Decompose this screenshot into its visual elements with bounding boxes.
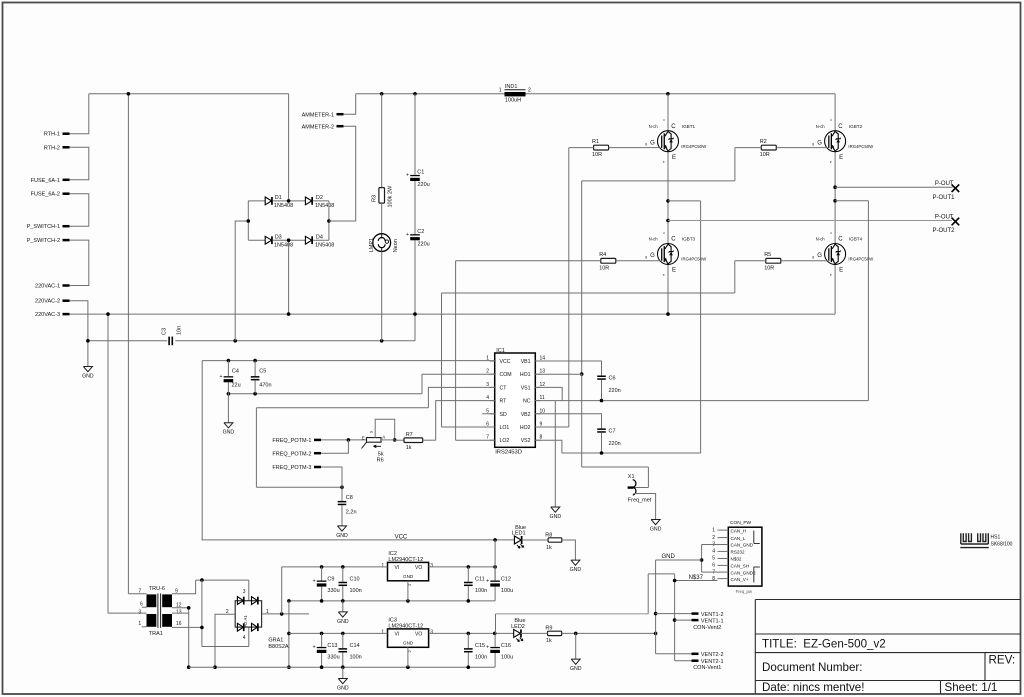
svg-text:CAN_GND2: CAN_GND2 (731, 570, 756, 575)
svg-text:LED2: LED2 (511, 624, 525, 630)
svg-text:P_SWITCH-1: P_SWITCH-1 (27, 224, 60, 230)
svg-text:g: g (645, 142, 647, 146)
svg-text:E: E (672, 155, 676, 161)
svg-text:LM2940CT-12: LM2940CT-12 (388, 624, 423, 630)
svg-text:R5: R5 (764, 252, 771, 258)
svg-text:3: 3 (243, 589, 246, 595)
svg-text:5k: 5k (378, 451, 384, 457)
svg-text:HO2: HO2 (520, 425, 531, 431)
svg-text:10n: 10n (177, 326, 183, 335)
svg-text:RTH-1: RTH-1 (44, 132, 60, 138)
svg-text:GRA1: GRA1 (268, 637, 283, 643)
svg-text:C6: C6 (609, 376, 616, 382)
svg-text:D2: D2 (316, 195, 323, 201)
svg-text:FUSE_6A-1: FUSE_6A-1 (31, 178, 60, 184)
svg-text:RS232: RS232 (731, 550, 745, 555)
svg-text:N-ch: N-ch (816, 237, 826, 242)
svg-text:B80S2A: B80S2A (268, 644, 289, 650)
svg-text:GND: GND (550, 514, 562, 520)
svg-text:LO2: LO2 (500, 438, 510, 444)
svg-text:G: G (650, 140, 655, 146)
svg-text:e: e (663, 273, 665, 277)
svg-text:P-OUT: P-OUT (935, 215, 954, 221)
svg-text:GND: GND (403, 640, 414, 645)
svg-text:CON-Vent1: CON-Vent1 (693, 665, 721, 671)
svg-text:N-ch: N-ch (649, 124, 659, 129)
svg-text:GND: GND (82, 374, 94, 380)
svg-text:100k 2W: 100k 2W (388, 185, 394, 208)
svg-text:VS1: VS1 (521, 385, 531, 391)
svg-text:D4: D4 (316, 234, 323, 240)
svg-text:VENT1-2: VENT1-2 (701, 612, 724, 618)
svg-text:4: 4 (243, 635, 246, 641)
svg-text:AMMETER-2: AMMETER-2 (302, 125, 334, 131)
svg-text:IRG4PC50W: IRG4PC50W (681, 257, 707, 262)
svg-text:R4: R4 (599, 252, 606, 258)
svg-text:C16: C16 (501, 643, 511, 649)
svg-text:IGBT3: IGBT3 (682, 237, 696, 242)
svg-text:RTH-2: RTH-2 (44, 145, 60, 151)
svg-text:N-ch: N-ch (816, 124, 826, 129)
svg-text:10R: 10R (599, 265, 609, 271)
svg-text:100uH: 100uH (505, 98, 521, 104)
svg-text:+: + (406, 173, 409, 179)
svg-text:LM2940CT-12: LM2940CT-12 (388, 557, 423, 563)
svg-text:+: + (486, 578, 489, 584)
svg-text:100n: 100n (350, 588, 362, 594)
svg-text:1: 1 (381, 629, 384, 635)
svg-text:GND: GND (336, 533, 348, 539)
svg-text:1: 1 (499, 88, 502, 94)
svg-text:2: 2 (408, 584, 412, 586)
svg-text:TITLE: EZ-Gen-500_v2: TITLE: EZ-Gen-500_v2 (762, 638, 886, 651)
svg-text:1k: 1k (546, 545, 552, 551)
svg-text:Date: nincs mentve!: Date: nincs mentve! (762, 681, 864, 694)
svg-text:IRS2453D: IRS2453D (495, 450, 522, 456)
svg-text:3: 3 (138, 609, 141, 615)
svg-text:HO1: HO1 (520, 372, 531, 378)
svg-text:10R: 10R (760, 152, 770, 158)
svg-text:HS1: HS1 (991, 535, 1001, 541)
svg-text:COM: COM (500, 372, 512, 378)
svg-text:Freq_pw: Freq_pw (736, 589, 753, 594)
svg-text:g: g (812, 255, 814, 259)
svg-text:C8: C8 (346, 495, 353, 501)
svg-text:R2: R2 (760, 139, 767, 145)
svg-text:330u: 330u (327, 588, 339, 594)
svg-text:+: + (406, 232, 409, 238)
svg-text:VI: VI (395, 632, 400, 638)
svg-text:A: A (382, 435, 385, 440)
svg-text:C: C (671, 124, 676, 130)
svg-text:3: 3 (430, 563, 433, 569)
svg-text:16: 16 (176, 621, 182, 627)
svg-text:2: 2 (408, 650, 412, 652)
svg-text:7: 7 (138, 589, 141, 595)
svg-text:1: 1 (138, 621, 141, 627)
svg-text:RT: RT (500, 399, 508, 405)
svg-text:D3: D3 (275, 234, 282, 240)
svg-text:Neon: Neon (393, 239, 399, 252)
svg-text:C: C (838, 124, 843, 130)
svg-text:IGBT2: IGBT2 (849, 124, 863, 129)
svg-text:IC2: IC2 (388, 551, 397, 557)
svg-text:VI: VI (395, 565, 400, 571)
svg-text:220u: 220u (418, 182, 430, 188)
svg-text:330u: 330u (327, 655, 339, 661)
svg-text:C10: C10 (350, 577, 360, 583)
svg-text:5: 5 (712, 556, 715, 562)
svg-text:10R: 10R (764, 265, 774, 271)
svg-text:GND: GND (570, 666, 582, 672)
svg-text:C9: C9 (327, 577, 334, 583)
svg-text:CAN_L: CAN_L (731, 536, 746, 541)
svg-text:c: c (830, 231, 832, 235)
svg-text:Sheet: 1/1: Sheet: 1/1 (945, 681, 998, 694)
svg-text:R3: R3 (372, 195, 378, 202)
svg-text:C7: C7 (609, 429, 616, 435)
svg-text:10R: 10R (592, 152, 602, 158)
svg-text:GND: GND (650, 527, 662, 533)
svg-text:C4: C4 (232, 368, 239, 374)
svg-text:100u: 100u (501, 588, 513, 594)
svg-text:6: 6 (712, 563, 715, 569)
svg-text:1N5408: 1N5408 (274, 243, 293, 249)
svg-text:220VAC-3: 220VAC-3 (35, 312, 60, 318)
svg-text:VO: VO (415, 632, 422, 638)
svg-text:P-OUT: P-OUT (935, 181, 954, 187)
svg-text:1: 1 (381, 563, 384, 569)
svg-text:CAN_V+: CAN_V+ (731, 577, 749, 582)
svg-text:LED1: LED1 (512, 530, 526, 536)
svg-text:GND: GND (337, 619, 349, 625)
svg-text:+: + (313, 578, 316, 584)
svg-text:D1: D1 (275, 195, 282, 201)
svg-text:N$37: N$37 (689, 575, 704, 581)
svg-text:GND: GND (570, 567, 582, 573)
svg-text:2: 2 (528, 88, 531, 94)
svg-text:TRA1: TRA1 (149, 631, 163, 637)
svg-text:6: 6 (140, 601, 143, 607)
svg-text:1N5408: 1N5408 (274, 203, 293, 209)
svg-text:N$32: N$32 (731, 557, 742, 562)
svg-text:G: G (817, 140, 822, 146)
svg-text:CAN_GND: CAN_GND (731, 543, 754, 548)
svg-text:R1: R1 (592, 139, 599, 145)
svg-text:C: C (671, 237, 676, 243)
svg-text:G: G (817, 253, 822, 259)
svg-text:e: e (830, 160, 832, 164)
svg-text:22u: 22u (232, 383, 241, 389)
svg-text:c: c (663, 118, 665, 122)
svg-text:NC: NC (523, 399, 531, 405)
svg-text:VCC: VCC (500, 359, 511, 365)
svg-text:s: s (369, 431, 374, 433)
svg-text:C14: C14 (350, 643, 360, 649)
svg-text:e: e (830, 273, 832, 277)
svg-text:VS2: VS2 (521, 438, 531, 444)
svg-text:G: G (650, 253, 655, 259)
svg-text:IC3: IC3 (388, 618, 397, 624)
svg-text:VENT2-2: VENT2-2 (701, 652, 724, 658)
svg-text:C2: C2 (417, 229, 424, 235)
svg-text:2: 2 (712, 535, 715, 541)
svg-text:1k: 1k (546, 638, 552, 644)
svg-text:c: c (663, 231, 665, 235)
svg-text:VB1: VB1 (521, 359, 531, 365)
svg-text:C1: C1 (417, 170, 424, 176)
svg-text:C15: C15 (475, 643, 485, 649)
svg-text:E: E (362, 436, 365, 441)
svg-text:VB2: VB2 (521, 412, 531, 418)
svg-text:IRG4PC50W: IRG4PC50W (848, 257, 874, 262)
svg-text:FREQ_POTM-3: FREQ_POTM-3 (272, 465, 311, 471)
svg-text:220n: 220n (609, 441, 621, 447)
svg-text:FREQ_POTM-2: FREQ_POTM-2 (272, 451, 311, 457)
svg-text:AMMETER-1: AMMETER-1 (302, 113, 334, 119)
svg-text:VENT1-1: VENT1-1 (701, 619, 724, 625)
svg-text:C: C (838, 237, 843, 243)
svg-text:1N5408: 1N5408 (315, 203, 334, 209)
svg-text:g: g (645, 255, 647, 259)
svg-text:2,2n: 2,2n (346, 510, 357, 516)
svg-text:C5: C5 (259, 368, 266, 374)
svg-text:VCC: VCC (395, 534, 408, 540)
svg-text:A2 A1: A2 A1 (243, 615, 248, 627)
svg-text:R9: R9 (545, 626, 552, 632)
svg-text:CT: CT (500, 385, 508, 391)
svg-text:220VAC-2: 220VAC-2 (35, 299, 60, 305)
svg-text:C13: C13 (327, 643, 337, 649)
svg-text:+: + (486, 645, 489, 651)
svg-text:LMP1: LMP1 (369, 238, 375, 252)
svg-text:E: E (672, 268, 676, 274)
svg-text:IGBT1: IGBT1 (682, 124, 696, 129)
svg-text:GND: GND (403, 574, 414, 579)
svg-text:SD: SD (500, 412, 507, 418)
svg-text:IRG4PC50W: IRG4PC50W (848, 144, 874, 149)
svg-text:C3: C3 (162, 328, 168, 335)
svg-text:470n: 470n (259, 383, 271, 389)
svg-text:g: g (812, 142, 814, 146)
svg-text:LO1: LO1 (500, 425, 510, 431)
svg-text:E: E (839, 268, 843, 274)
svg-text:1N5408: 1N5408 (315, 243, 334, 249)
svg-text:P-OUT2: P-OUT2 (932, 228, 955, 234)
svg-text:CON-Vent2: CON-Vent2 (693, 625, 721, 631)
svg-text:1k: 1k (406, 445, 412, 451)
svg-text:GND: GND (223, 430, 235, 436)
svg-text:e: e (663, 160, 665, 164)
svg-text:C12: C12 (501, 577, 511, 583)
svg-text:X1: X1 (628, 474, 635, 480)
svg-text:CAN_SH: CAN_SH (731, 564, 750, 569)
svg-text:FUSE_6A-2: FUSE_6A-2 (31, 192, 60, 198)
svg-text:1: 1 (712, 527, 715, 533)
svg-text:IGBT4: IGBT4 (849, 237, 863, 242)
svg-text:Freq_met: Freq_met (628, 497, 652, 503)
svg-text:100n: 100n (350, 655, 362, 661)
svg-text:C11: C11 (475, 577, 485, 583)
svg-text:CON_PW: CON_PW (730, 520, 752, 526)
svg-text:+: + (313, 645, 316, 651)
svg-text:100n: 100n (475, 588, 487, 594)
svg-text:REV:: REV: (989, 654, 1016, 667)
svg-text:100u: 100u (501, 655, 513, 661)
svg-text:220VAC-1: 220VAC-1 (35, 284, 60, 290)
svg-text:220u: 220u (418, 241, 430, 247)
svg-text:4: 4 (712, 549, 715, 555)
svg-text:CAN_H: CAN_H (731, 528, 747, 533)
svg-text:VO: VO (415, 565, 422, 571)
svg-text:N-ch: N-ch (649, 237, 659, 242)
svg-text:+: + (219, 374, 222, 380)
svg-text:R7: R7 (406, 432, 413, 438)
svg-text:P_SWITCH-2: P_SWITCH-2 (27, 238, 60, 244)
svg-text:FREQ_POTM-1: FREQ_POTM-1 (272, 438, 311, 444)
svg-text:SK68/100: SK68/100 (991, 542, 1013, 548)
svg-text:13: 13 (176, 610, 182, 616)
svg-text:100n: 100n (475, 655, 487, 661)
svg-text:TRU-6: TRU-6 (149, 586, 165, 592)
svg-text:220n: 220n (609, 388, 621, 394)
svg-text:R8: R8 (545, 532, 552, 538)
svg-text:P-OUT1: P-OUT1 (932, 195, 955, 201)
svg-text:IC1: IC1 (496, 348, 505, 354)
svg-text:E: E (839, 155, 843, 161)
svg-text:GND: GND (662, 554, 676, 560)
svg-text:Document Number:: Document Number: (762, 661, 863, 674)
svg-text:c: c (830, 118, 832, 122)
svg-text:IND1: IND1 (505, 84, 518, 90)
svg-text:3: 3 (430, 629, 433, 635)
svg-text:R6: R6 (377, 458, 384, 464)
svg-text:GND: GND (337, 686, 349, 692)
svg-text:IRG4PC50W: IRG4PC50W (681, 144, 707, 149)
